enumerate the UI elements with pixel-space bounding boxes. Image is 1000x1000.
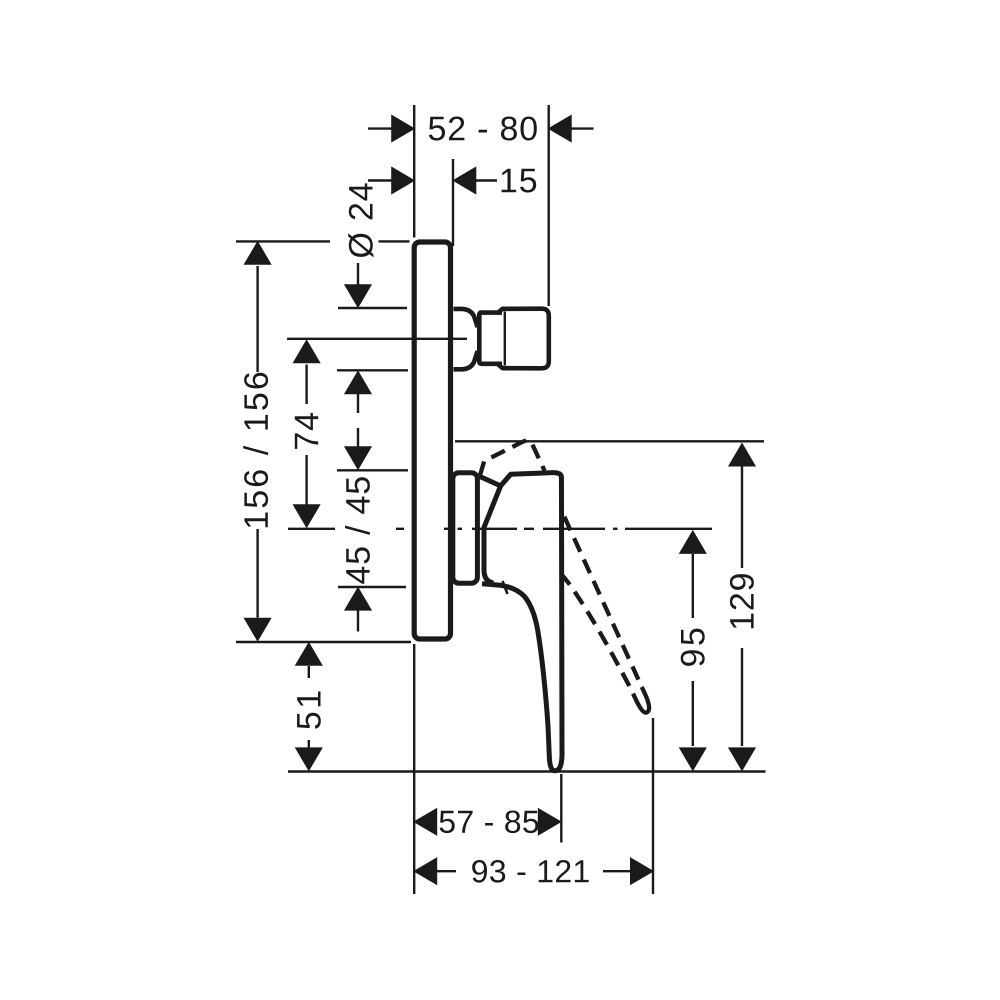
pivot centerline dash-dot: [288, 528, 712, 530]
extension line right (x=548.7) for 52-80: [548, 105, 550, 306]
text 45/45: [345, 477, 370, 584]
reference line knob top (O24): [338, 307, 407, 309]
lever handle outline (solid, down position): [480, 473, 563, 771]
reference line knob bottom (O24): [337, 369, 408, 371]
ground baseline: [288, 770, 766, 772]
knob middle cylinder (open right side): [479, 313, 502, 364]
knob centerline: [287, 338, 467, 340]
knob neck top profile: [454, 309, 478, 327]
lever hub: [453, 473, 478, 584]
dimension 52-80 left arrow: [368, 115, 414, 141]
dimension 95 bottom arrow (down): [680, 681, 706, 770]
dimension 156/156 bottom arrow (down): [244, 529, 270, 641]
dimension O24 upper arrow (down): [345, 263, 371, 307]
dimension 93-121 left arrow: [414, 858, 456, 884]
extension line lever tip (x=561.3): [560, 774, 562, 843]
dimension 52-80 right arrow: [549, 115, 594, 141]
dimension 74 top arrow (up): [293, 340, 319, 404]
text 74: [295, 413, 318, 449]
dimension 129 top arrow (up): [729, 444, 755, 569]
reference line hub top (45/45): [337, 469, 408, 471]
reference line plate bottom (156/51): [236, 641, 411, 643]
knob body (open left side with chamfers): [498, 309, 549, 369]
dimension 51 top arrow (up): [296, 643, 322, 678]
dimension 74 bottom arrow (down): [293, 455, 319, 527]
dimension 93-121 right arrow: [603, 858, 653, 884]
reference line hub bottom (45/45): [338, 586, 406, 588]
text O24: [348, 183, 373, 257]
reference line dashed-handle top (129): [455, 440, 764, 442]
dimension 57-85 left arrow: [414, 809, 437, 835]
extension line dashed tip (x=653): [652, 718, 654, 894]
reference line plate top (156 top): [236, 240, 330, 242]
dimension 51 bottom arrow (down): [296, 740, 322, 770]
extension line (x=453.3) for 15: [452, 159, 454, 246]
lever neck left edge: [484, 486, 501, 583]
tick mark on lever edge: [503, 581, 508, 594]
knob neck bottom profile: [454, 351, 478, 369]
text 129: [730, 574, 754, 628]
dimension 95 top arrow (up): [680, 531, 706, 618]
lower extension line (x=414): [413, 644, 415, 894]
text 156/156: [243, 373, 268, 528]
text 51: [297, 692, 321, 729]
lever handle dashed (raised position): [474, 439, 653, 735]
dimension 156/156 top arrow (up): [244, 242, 270, 372]
dimension 129 bottom arrow (down): [729, 648, 755, 770]
text 57-85: [440, 811, 539, 834]
text 95: [681, 629, 705, 666]
text 93-121: [472, 860, 589, 883]
dimension 15 left arrow: [368, 167, 414, 193]
dimension 45/45 bottom arrow (up): [345, 588, 371, 632]
text 15: [502, 169, 537, 193]
dimension 57-85 right arrow: [538, 809, 561, 835]
dimension O24 lower arrow (up): [345, 371, 371, 413]
extension line left (x=414) top: [413, 105, 415, 238]
dimension 45/45 top arrow (down): [345, 428, 371, 469]
dimension 15 right arrow: [453, 167, 497, 193]
knob face line: [504, 312, 506, 366]
escutcheon plate (side view): [414, 242, 450, 639]
text 52-80: [429, 117, 537, 141]
